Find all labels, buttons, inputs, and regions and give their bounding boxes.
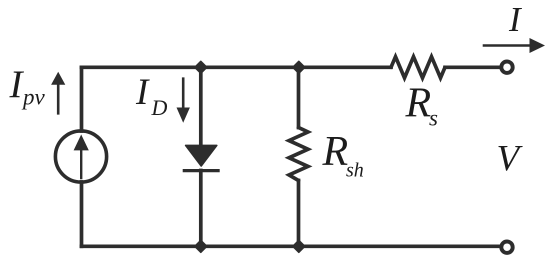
wire diode branch upper <box>199 67 203 146</box>
label I_pv <box>9 63 46 110</box>
arrow I_pv (up, left of source) <box>51 72 65 115</box>
wire left branch upper <box>80 67 84 131</box>
svg-text:I: I <box>508 0 523 39</box>
resistor R_s zigzag <box>391 57 445 78</box>
arrow I (output current, to the right) <box>483 38 545 53</box>
junction dot bottom-left (diode bottom) <box>195 240 207 252</box>
wire shunt branch lower <box>297 181 301 247</box>
label R_sh <box>322 129 364 181</box>
wire top (left corner to Rs) <box>82 65 392 69</box>
label I_D <box>135 72 168 120</box>
junction dot bottom-right (shunt bottom) <box>293 240 305 252</box>
svg-text:D: D <box>151 95 168 120</box>
arrow I_D (down, right of label) <box>177 77 190 122</box>
terminal top-right <box>501 61 512 72</box>
current source arrow (inside circle) <box>74 135 89 180</box>
wire bottom <box>82 244 500 248</box>
junction dot top-left (diode top) <box>195 61 207 73</box>
diode D triangle <box>186 145 217 166</box>
wire top (Rs to output terminal) <box>445 65 500 69</box>
svg-text:sh: sh <box>346 159 364 181</box>
svg-text:I: I <box>135 72 150 113</box>
svg-text:s: s <box>429 105 438 130</box>
diode D cathode bar <box>183 169 220 172</box>
svg-text:R: R <box>322 129 349 175</box>
current source I_pv circle <box>55 131 106 182</box>
svg-text:R: R <box>405 80 432 126</box>
wire left branch lower <box>80 182 84 246</box>
wire shunt branch upper <box>297 67 301 127</box>
svg-text:V: V <box>497 139 524 180</box>
junction dot top-right (shunt top) <box>293 61 305 73</box>
svg-text:pv: pv <box>21 85 46 110</box>
wire diode branch lower <box>199 171 203 247</box>
resistor R_sh zigzag <box>289 128 308 181</box>
terminal bottom-right <box>501 242 512 253</box>
label R_s <box>405 80 439 130</box>
